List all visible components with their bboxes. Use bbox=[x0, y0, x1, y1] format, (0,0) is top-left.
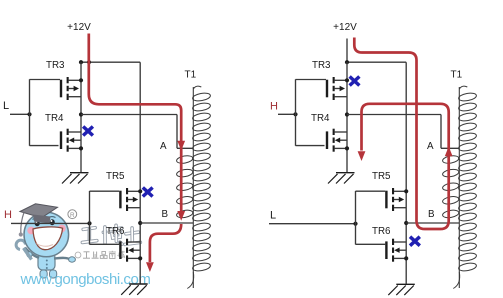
svg-text:TR4: TR4 bbox=[311, 113, 330, 124]
svg-text:TR5: TR5 bbox=[106, 171, 125, 182]
wire TR6 gate lead (right) bbox=[356, 243, 386, 245]
off-cross TR3 (right, blue X) bbox=[350, 77, 360, 86]
off-cross TR6 (right, blue X) bbox=[410, 237, 420, 246]
watermark text bo (outlined) bbox=[103, 225, 122, 245]
svg-text:H: H bbox=[4, 209, 12, 221]
svg-text:H: H bbox=[270, 100, 278, 112]
current arrow up through winding to A (right, red) bbox=[445, 147, 453, 157]
transistor TR3 (right, P-channel) bbox=[326, 77, 349, 100]
wire TR4 gate lead (left) bbox=[30, 145, 59, 147]
current arrow into node A (left, red) bbox=[177, 141, 185, 151]
transistor TR6 (left, N-channel) bbox=[119, 239, 142, 262]
wire gate bus vertical (right top bracket) bbox=[295, 79, 297, 146]
junction dot +12V (right) bbox=[345, 60, 349, 64]
wire TR3/TR4 leg vertical (left) bbox=[80, 62, 82, 173]
off-cross TR5 (left, blue X) bbox=[143, 188, 153, 197]
svg-text:L: L bbox=[3, 100, 9, 112]
transistor TR5 (left, P-channel) bbox=[119, 188, 142, 211]
transistor TR4 (right, N-channel) bbox=[326, 129, 349, 152]
node B junction dot (left) bbox=[138, 221, 142, 225]
watermark registered mark (R) bbox=[68, 210, 77, 219]
svg-text:L: L bbox=[270, 209, 276, 221]
ground TR6 leg (right) bbox=[388, 284, 415, 295]
svg-text:+12V: +12V bbox=[67, 22, 91, 33]
current path B through TR6 to ground (left, red) bbox=[150, 224, 181, 262]
transistor TR6 (right, N-channel) bbox=[385, 239, 408, 262]
svg-text:B: B bbox=[428, 209, 435, 220]
wire +12V rail horizontal (right) bbox=[347, 61, 406, 63]
wire input H horizontal (left) bbox=[11, 222, 90, 224]
wire TR5 +12V feed vertical (right) bbox=[405, 62, 407, 284]
junction dot input L (right) bbox=[353, 222, 357, 226]
svg-text:TR6: TR6 bbox=[106, 226, 125, 237]
transformer T1 primary winding loops (right) bbox=[442, 155, 459, 219]
wire gate bus vertical (left bottom bracket) bbox=[89, 191, 91, 245]
watermark robot mascot right arm bbox=[54, 257, 75, 262]
current path +12V through TR3 to A (left, red) bbox=[89, 34, 181, 213]
junction dot +12V supply (left) bbox=[87, 60, 91, 64]
transformer T1 core line (left) bbox=[192, 87, 194, 288]
wire TR4 gate lead (right) bbox=[296, 145, 325, 147]
transistor TR5 (right, P-channel) bbox=[385, 188, 408, 211]
watermark robot mascot feet bbox=[40, 270, 57, 278]
svg-text:TR3: TR3 bbox=[46, 60, 65, 71]
ground TR6 leg (left) bbox=[121, 284, 148, 295]
node A junction dot on leg (left) bbox=[79, 112, 83, 116]
svg-text:www.gongboshi.com: www.gongboshi.com bbox=[20, 271, 151, 288]
transformer T1 top lead (right) bbox=[459, 86, 467, 89]
wire node A horizontal (left) bbox=[81, 114, 177, 116]
wire +12V drop vertical (right) bbox=[346, 39, 348, 63]
transformer T1 core line (right) bbox=[458, 87, 460, 288]
off-cross TR4 (left, blue X) bbox=[83, 127, 93, 136]
wire TR3/TR4 leg vertical (right) bbox=[346, 62, 348, 173]
transformer T1 bottom lead (left) bbox=[187, 272, 193, 289]
svg-text:+12V: +12V bbox=[333, 22, 357, 33]
svg-text:R: R bbox=[70, 212, 75, 219]
svg-text:B: B bbox=[162, 209, 169, 220]
svg-text:T1: T1 bbox=[451, 70, 463, 81]
node A junction dot on leg (right) bbox=[345, 112, 349, 116]
wire gate bus vertical (left top bracket) bbox=[29, 79, 31, 146]
transistor TR3 (left, P-channel) bbox=[60, 77, 83, 100]
watermark text industrial-goods-mall (small gray) bbox=[83, 251, 125, 259]
svg-text:A: A bbox=[427, 141, 434, 152]
transformer T1 secondary winding loops (left) bbox=[192, 92, 211, 272]
wire input L horizontal (right) bbox=[269, 223, 356, 225]
wire TR5 +12V feed vertical (left) bbox=[139, 62, 141, 284]
wire node B horizontal (left) bbox=[140, 222, 193, 224]
junction dot input H (right) bbox=[293, 112, 297, 116]
current path +12V through TR5, winding B to A (right, red) bbox=[354, 38, 448, 230]
wire input H horizontal (right) bbox=[278, 113, 296, 115]
wire TR6 gate lead (left) bbox=[90, 243, 120, 245]
junction dot input H (left) bbox=[87, 221, 91, 225]
transformer T1 top lead (left) bbox=[193, 86, 201, 89]
watermark robot mascot graduation cap bbox=[19, 204, 58, 237]
ground TR4 leg (right) bbox=[328, 173, 355, 184]
wire node B horizontal (right) bbox=[406, 222, 459, 224]
wire node A horizontal (right) bbox=[347, 114, 441, 116]
watermark robot mascot head bbox=[24, 212, 69, 257]
current arrow to ground (left, red) bbox=[146, 262, 154, 272]
watermark robot mascot left arm and wrench bbox=[16, 240, 39, 259]
transformer T1 secondary winding loops (right) bbox=[458, 92, 477, 272]
watermark small circle-R bbox=[75, 252, 81, 258]
watermark text gong (outlined) bbox=[82, 228, 97, 243]
watermark robot mascot body bbox=[38, 253, 55, 270]
ground TR4 leg (left) bbox=[62, 173, 89, 184]
svg-text:TR5: TR5 bbox=[372, 171, 391, 182]
wire TR5 gate lead (right) bbox=[356, 190, 386, 192]
transformer T1 primary winding loops (left) bbox=[176, 155, 193, 219]
svg-text:A: A bbox=[160, 141, 167, 152]
svg-text:TR3: TR3 bbox=[312, 60, 331, 71]
wire TR5 gate lead (left) bbox=[90, 190, 120, 192]
wire input L horizontal (left) bbox=[10, 113, 30, 115]
wire gate bus vertical (right bottom bracket) bbox=[355, 191, 357, 245]
transistor TR4 (left, N-channel) bbox=[60, 129, 83, 152]
svg-text:TR4: TR4 bbox=[45, 113, 64, 124]
svg-text:T1: T1 bbox=[185, 70, 197, 81]
current arrow into node B (left, red) bbox=[177, 211, 185, 221]
watermark text shi (outlined) bbox=[124, 228, 140, 245]
node B junction dot (right) bbox=[404, 221, 408, 225]
junction dot +12V at TR3 drain (left) bbox=[79, 60, 83, 64]
wire +12V rail horizontal (left circuit) bbox=[81, 61, 140, 63]
wire TR3 gate lead (right) bbox=[296, 79, 327, 81]
current arrow through TR4 to ground (right, red) bbox=[358, 151, 366, 161]
junction dot input L (left) bbox=[27, 112, 31, 116]
svg-text:TR6: TR6 bbox=[372, 226, 391, 237]
wire TR3 gate lead (left) bbox=[30, 79, 61, 81]
transformer T1 bottom lead (right) bbox=[453, 272, 459, 289]
